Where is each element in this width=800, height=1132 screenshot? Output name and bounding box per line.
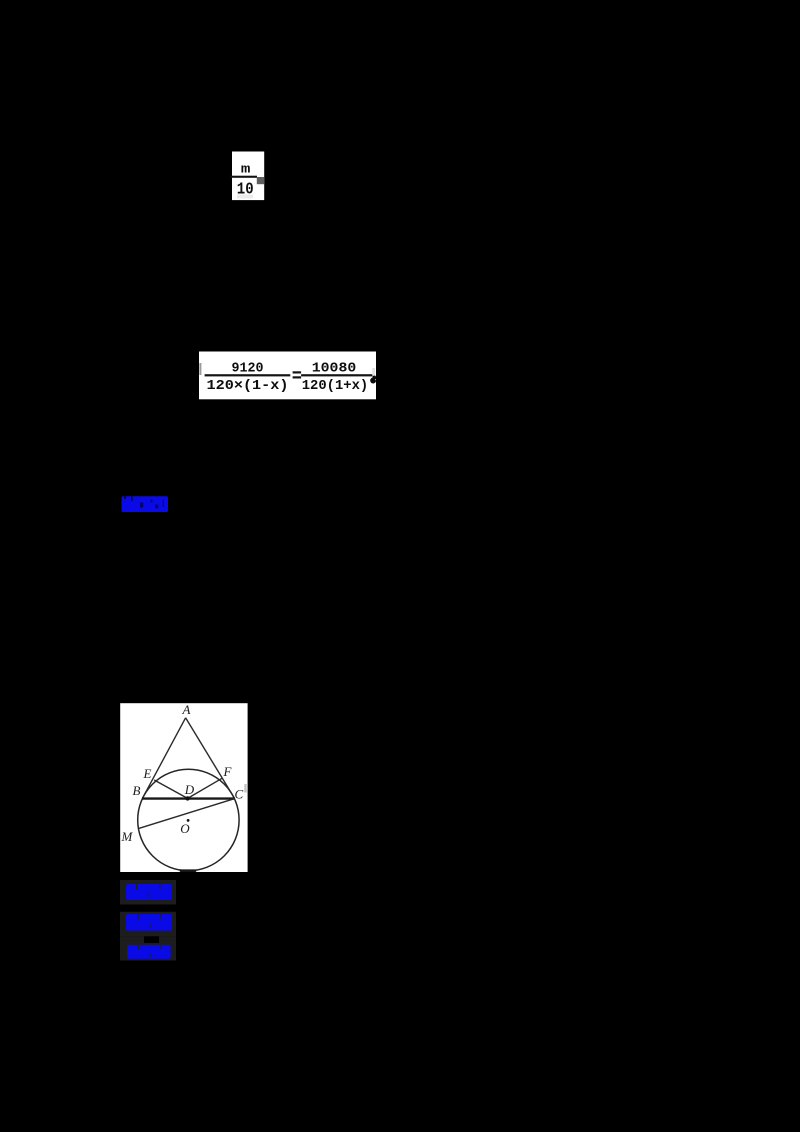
gray block right of fraction bar	[257, 177, 264, 184]
dark background row 1	[120, 880, 176, 905]
svg-text:120×(1-x): 120×(1-x)	[207, 378, 289, 394]
fraction m/10 numerator m	[241, 162, 251, 176]
line MC	[138, 799, 234, 829]
fraction m/10 white box	[232, 152, 264, 201]
dark background row 2 left tab	[120, 936, 144, 943]
svg-text:m: m	[241, 162, 251, 176]
point O dot	[187, 819, 190, 822]
equation denominator 120x(1-x)	[207, 378, 289, 394]
point D dot	[185, 796, 189, 800]
equation bar right	[301, 374, 372, 376]
svg-text:F: F	[223, 764, 233, 779]
equation denominator 120(1+x)	[302, 378, 369, 394]
segment ED	[154, 780, 187, 798]
blue label explanation	[126, 914, 172, 931]
figure labels	[121, 702, 244, 844]
equation equals sign	[293, 371, 302, 378]
segment DF	[188, 778, 222, 798]
gray caret tick at equation left	[199, 363, 201, 375]
dark background row 2 right tab	[159, 936, 176, 943]
gray caret tick right of C	[244, 784, 246, 793]
dark background row 3	[120, 943, 176, 961]
geometry figure white box	[120, 703, 247, 872]
svg-text:120(1+x): 120(1+x)	[302, 378, 369, 394]
equation numerator 9120	[232, 360, 264, 376]
black comma at equation box edge	[370, 375, 376, 383]
triangle side AC	[186, 718, 235, 799]
bottom arc smudge	[180, 869, 197, 872]
svg-text:D: D	[184, 782, 195, 797]
triangle side AB	[142, 718, 185, 799]
svg-text:9120: 9120	[232, 360, 264, 376]
svg-text:B: B	[133, 783, 141, 798]
chord BC	[142, 797, 235, 799]
svg-text:10080: 10080	[312, 360, 357, 376]
blue label comment	[127, 945, 171, 959]
equation numerator 10080	[312, 360, 357, 376]
svg-text:C: C	[235, 787, 244, 802]
blue label answer	[126, 884, 172, 900]
equation bar left	[205, 374, 291, 376]
svg-text:M: M	[121, 829, 134, 844]
faint smudge under denominator 10	[237, 195, 253, 199]
blue label (analysis) above figure	[122, 496, 169, 512]
fraction m/10 bar	[230, 176, 257, 178]
svg-text:O: O	[180, 821, 190, 836]
svg-text:E: E	[143, 766, 152, 781]
dark background row 2	[120, 912, 176, 937]
svg-text:A: A	[182, 702, 191, 717]
white comma after equation	[372, 368, 375, 375]
fraction m/10 denominator 10	[237, 180, 254, 198]
circle O	[138, 769, 239, 870]
equation white box	[199, 352, 376, 400]
